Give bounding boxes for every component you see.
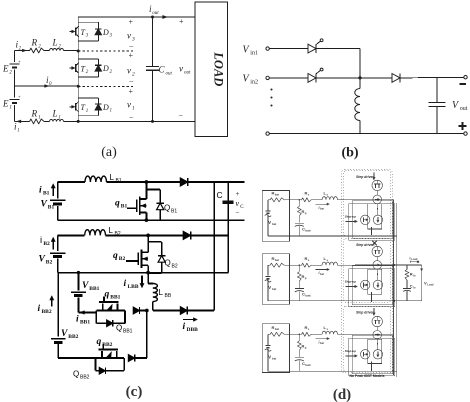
label iB2 with arrow xyxy=(52,240,54,250)
svg-text:B1: B1 xyxy=(171,209,177,215)
wire output vertical left xyxy=(213,182,215,311)
wire L2 to bus xyxy=(64,50,79,52)
node LBB bottom junction xyxy=(145,309,149,313)
capacitor output xyxy=(436,78,438,102)
source Vbat row 3 xyxy=(267,334,269,345)
modules outer dashed container xyxy=(342,170,393,373)
wire common rail xyxy=(58,272,229,274)
IGBT circle module 3 xyxy=(372,316,382,326)
body diode QB1 loop xyxy=(146,189,160,191)
svg-text:−: − xyxy=(129,42,134,51)
svg-text:LBB: LBB xyxy=(128,284,139,290)
wire top output xyxy=(78,16,195,18)
wire row 2 from box xyxy=(290,264,302,266)
svg-text:bat: bat xyxy=(275,327,279,331)
svg-text:−: − xyxy=(179,111,184,120)
subsystem solid box module 3 xyxy=(352,335,392,374)
inductor LBB xyxy=(147,273,149,284)
wire Ls to module row 3 xyxy=(338,333,344,335)
load box xyxy=(195,2,228,137)
resistor Rbat row 2 xyxy=(268,264,270,266)
inductor L2 xyxy=(50,49,64,51)
diode D1 xyxy=(95,104,102,110)
node QB2 source on rail xyxy=(146,271,150,275)
resistor Rs row 2 xyxy=(301,263,312,267)
svg-text:i: i xyxy=(39,186,42,196)
node bus-top-branch junction xyxy=(77,50,80,53)
wire circle2-pair module 1 xyxy=(376,204,379,216)
svg-text:bat: bat xyxy=(272,287,276,291)
svg-text:L: L xyxy=(52,109,58,119)
wire pair to bottom module 2 xyxy=(371,292,373,302)
svg-text:Q: Q xyxy=(164,204,170,213)
svg-text:Q: Q xyxy=(116,324,122,333)
wire load right with Vload xyxy=(421,265,423,270)
svg-text:1: 1 xyxy=(58,116,61,121)
wire circle2-pair module 2 xyxy=(376,269,379,280)
wire bottom branch i1 xyxy=(15,120,30,122)
node bus-bottom junction xyxy=(77,120,80,123)
svg-text:D: D xyxy=(102,64,109,73)
label plus output xyxy=(459,125,467,127)
wire QBB2 riser to DBB node xyxy=(146,311,148,359)
wire circle1-circle2 module 1 xyxy=(376,190,378,195)
dashed link upper xyxy=(78,50,135,52)
svg-text:1: 1 xyxy=(38,116,41,121)
wire LB1 to QB1 node xyxy=(107,181,147,183)
svg-text:Step driven: Step driven xyxy=(356,243,374,247)
diode DB2 xyxy=(148,234,183,236)
node load bottom junction xyxy=(393,300,395,302)
wire row 3 through module to bus xyxy=(343,333,393,335)
label ibat row 3 xyxy=(315,338,328,340)
svg-text:p: p xyxy=(305,345,307,349)
svg-text:Step-up: Step-up xyxy=(345,349,356,353)
capacitor Cbat row 3 xyxy=(298,350,300,357)
driver circle module 3 xyxy=(361,350,370,359)
wire Vin1 to SCR1 xyxy=(269,48,308,50)
subsystem solid box module 1 xyxy=(352,201,392,239)
thyristor SCR2 xyxy=(308,74,316,83)
svg-text:V: V xyxy=(268,354,271,359)
capacitor Cload xyxy=(406,280,408,288)
svg-text:Step-up: Step-up xyxy=(345,280,356,284)
svg-text:BB1: BB1 xyxy=(80,320,90,326)
capacitor Cbat row 2 xyxy=(298,281,300,288)
capacitor C output xyxy=(227,182,229,273)
source VBB2 xyxy=(51,338,66,340)
current source circle module 1 xyxy=(373,195,382,204)
svg-text:+: + xyxy=(18,96,21,101)
resistor Rbat row 3 xyxy=(268,333,270,335)
svg-text:batt: batt xyxy=(305,228,310,232)
switch cell T3/D3 frame xyxy=(78,21,98,23)
IGBT module 1 dashed box xyxy=(343,171,390,236)
svg-text:BB1: BB1 xyxy=(110,295,120,301)
wire Rs to Ls row 2 xyxy=(312,264,323,266)
node row 3 branch xyxy=(299,334,301,336)
diode DB1 xyxy=(146,181,180,183)
svg-text:V: V xyxy=(61,329,68,339)
wire pair to bottom module 3 xyxy=(371,361,373,371)
wire VBB1 to QBB1 xyxy=(77,297,79,312)
svg-text:−: − xyxy=(129,78,134,87)
svg-text:B1: B1 xyxy=(121,204,128,210)
svg-text:D: D xyxy=(102,28,109,37)
inductor LB1 xyxy=(85,176,107,182)
diode DBB xyxy=(153,310,181,312)
svg-text:Step driven: Step driven xyxy=(356,175,374,179)
svg-text:v: v xyxy=(127,66,131,76)
source circle module 1 xyxy=(373,215,382,224)
node bus-i0 junction xyxy=(77,85,80,88)
svg-text:q: q xyxy=(97,337,102,347)
wire DB1 to output rail xyxy=(188,181,245,183)
svg-text:Load: Load xyxy=(427,282,434,286)
transistor T3 xyxy=(70,31,74,33)
svg-text:T: T xyxy=(81,64,86,73)
svg-text:B1: B1 xyxy=(116,178,122,184)
svg-text:out: out xyxy=(166,72,173,77)
resistor Rs row 3 xyxy=(301,332,312,336)
dashed link lower xyxy=(78,85,135,87)
current source circle module 2 xyxy=(373,261,382,270)
svg-text:q: q xyxy=(113,251,118,261)
wire section2 top xyxy=(58,234,85,236)
wire bottom row 3 xyxy=(268,370,397,372)
wire bus vertical xyxy=(77,17,79,121)
resistor Rs row 1 xyxy=(301,198,312,202)
svg-text:LOAD: LOAD xyxy=(212,51,226,86)
label minus output xyxy=(460,83,467,85)
source VB2 xyxy=(50,252,66,254)
source E2 xyxy=(10,63,20,65)
svg-text:Step driven: Step driven xyxy=(356,311,374,315)
svg-text:E: E xyxy=(2,99,9,109)
svg-text:(c): (c) xyxy=(126,384,143,400)
svg-text:i: i xyxy=(38,304,41,314)
label ibat row 1 xyxy=(315,203,328,205)
driver circle module 2 xyxy=(361,280,370,289)
wire row 1 through module to bus xyxy=(343,199,393,201)
inductor Ls row 1 xyxy=(322,197,337,200)
svg-text:Q: Q xyxy=(73,370,79,379)
wire load top xyxy=(394,264,422,266)
svg-text:L: L xyxy=(109,226,114,235)
transistor T2 xyxy=(70,67,74,69)
svg-text:i: i xyxy=(76,315,79,325)
source Vbat row 1 xyxy=(267,200,269,211)
transistor QBB2 horizontal xyxy=(102,344,104,350)
wire DB2 to cap rail xyxy=(191,234,229,236)
svg-text:out: out xyxy=(460,106,468,112)
node output-bottom junction xyxy=(151,120,154,123)
diode D3 xyxy=(95,29,102,35)
svg-text:BB1: BB1 xyxy=(89,286,99,292)
svg-text:i: i xyxy=(40,235,42,246)
diode freewheel output xyxy=(392,74,400,83)
label iLBB with arrow xyxy=(141,276,143,286)
IGBT module 2 dashed box xyxy=(343,239,390,303)
svg-text:out: out xyxy=(152,11,159,16)
svg-text:L: L xyxy=(52,38,58,48)
svg-text:DBB: DBB xyxy=(187,327,199,333)
svg-text:+: + xyxy=(179,17,184,26)
wire section1 top xyxy=(58,181,85,183)
svg-text:Q: Q xyxy=(165,259,171,268)
transistor QBB1 horizontal xyxy=(103,296,105,302)
svg-text:R: R xyxy=(31,38,38,48)
node QB2 drain junction xyxy=(146,234,150,238)
battery box row 2 xyxy=(262,254,289,305)
svg-text:V: V xyxy=(41,200,48,210)
svg-text:v: v xyxy=(127,31,131,41)
wire load bottom xyxy=(394,300,422,302)
svg-text:batt: batt xyxy=(305,294,310,298)
svg-text:v: v xyxy=(236,199,240,208)
svg-text:i: i xyxy=(183,322,186,332)
label qB1 gate xyxy=(127,207,137,209)
switch cell T1/D1 frame xyxy=(78,97,98,99)
resistor Rp row 3 xyxy=(298,334,300,341)
wire Ls to module row 2 xyxy=(338,264,344,266)
resistor Rload xyxy=(406,265,408,270)
label qB2 gate xyxy=(126,260,138,262)
svg-text:1: 1 xyxy=(17,129,20,134)
resistor R1 xyxy=(29,119,45,124)
svg-text:C: C xyxy=(159,65,166,75)
svg-text:1: 1 xyxy=(86,109,89,114)
svg-text:lo: lo xyxy=(413,285,416,289)
driver circle module 1 xyxy=(361,215,370,224)
pair frame module 1 xyxy=(368,204,382,229)
node QB1 source junction xyxy=(145,218,149,222)
svg-text:bat: bat xyxy=(272,356,276,360)
svg-text:q: q xyxy=(115,199,120,209)
wire left rail E2-E1 column xyxy=(14,51,16,63)
inductor Ls row 3 xyxy=(322,331,337,334)
wire bottom row 2 xyxy=(268,300,394,302)
terminal Vin1 xyxy=(266,47,269,50)
svg-text:B2: B2 xyxy=(46,260,53,266)
pair frame module 2 xyxy=(368,269,382,294)
arrow gate module 1 xyxy=(373,172,375,178)
label iBB2 with arrow xyxy=(51,298,53,306)
svg-text:B2: B2 xyxy=(172,264,178,270)
wire circle1-circle2 module 2 xyxy=(376,257,378,261)
diode QBB2 output xyxy=(128,355,134,362)
capacitor Cbat row 1 xyxy=(298,216,300,223)
svg-text:(a): (a) xyxy=(101,145,117,160)
svg-text:Step-up: Step-up xyxy=(345,215,356,219)
body diode loop QBB1 xyxy=(95,311,97,324)
svg-text:T: T xyxy=(81,103,86,112)
battery box row 3 xyxy=(262,324,289,373)
source circle module 2 xyxy=(373,280,382,289)
svg-text:B1: B1 xyxy=(43,191,50,197)
svg-text:i: i xyxy=(124,279,127,289)
wire pair to bottom module 1 xyxy=(371,227,373,235)
svg-text:L: L xyxy=(159,288,164,297)
wire bottom row 1 xyxy=(268,235,397,237)
transistor QB2 xyxy=(147,235,149,252)
label iB1 with arrow xyxy=(52,186,54,196)
wire row2 across module to load xyxy=(343,264,394,266)
svg-text:No Peak IGBT Models: No Peak IGBT Models xyxy=(349,374,384,378)
resistor Rbat row 1 xyxy=(268,199,270,201)
wire SCR2 to diode xyxy=(316,77,392,79)
capacitor Cout xyxy=(152,17,154,66)
svg-text:v: v xyxy=(127,100,131,110)
source circle module 3 xyxy=(373,350,382,359)
subsystem solid box module 2 xyxy=(352,266,392,305)
wire row 3 from box xyxy=(290,333,302,335)
svg-text:p: p xyxy=(305,211,307,215)
svg-text:batt: batt xyxy=(305,363,310,367)
wire section1 left rail xyxy=(57,182,59,199)
svg-text:B1: B1 xyxy=(48,205,55,211)
svg-text:q: q xyxy=(105,290,110,300)
container solid right edges xyxy=(393,200,395,376)
wire top branch i2 xyxy=(15,50,30,52)
svg-text:bat: bat xyxy=(275,193,279,197)
wire VBB2 branch xyxy=(57,273,59,337)
svg-text:(b): (b) xyxy=(341,146,358,161)
inductor filter xyxy=(359,78,361,89)
current source circle module 3 xyxy=(373,331,382,340)
svg-text:out: out xyxy=(184,71,191,76)
svg-text:2: 2 xyxy=(9,70,12,76)
svg-text:C: C xyxy=(217,190,223,200)
body diode loop QBB2 xyxy=(95,358,97,371)
svg-text:in2: in2 xyxy=(250,80,258,86)
source E1 xyxy=(10,99,20,101)
svg-text:T: T xyxy=(81,28,86,37)
node row 2 branch xyxy=(299,264,301,266)
thyristor SCR1 xyxy=(308,44,316,53)
mark X module 2 xyxy=(372,241,376,245)
terminal Vin2 xyxy=(266,76,269,79)
node junction SCR outputs xyxy=(358,76,361,79)
svg-text:+: + xyxy=(129,87,134,96)
svg-text:BB2: BB2 xyxy=(42,309,52,315)
svg-text:R: R xyxy=(31,109,38,119)
svg-text:BB2: BB2 xyxy=(102,342,112,348)
source VB1 xyxy=(50,199,66,201)
svg-text:bat: bat xyxy=(272,222,276,226)
terminal output negative xyxy=(464,76,467,79)
IGBT module 3 dashed box xyxy=(343,306,390,371)
terminal bottom right xyxy=(464,132,467,135)
svg-text:−: − xyxy=(236,209,240,217)
svg-text:in1: in1 xyxy=(250,50,258,56)
wire section2 left rail xyxy=(57,235,59,251)
label ibat row 2 xyxy=(315,269,328,271)
svg-text:B2: B2 xyxy=(119,256,126,262)
wire DBB to output vertical xyxy=(187,310,214,312)
wire circle1-circle2 module 3 xyxy=(376,327,378,331)
svg-text:bat: bat xyxy=(320,207,324,211)
wire diode to output terminal xyxy=(400,76,464,79)
body diode QB2 loop xyxy=(148,241,162,243)
IGBT circle module 1 xyxy=(372,180,382,190)
resistor Rp row 2 xyxy=(298,265,300,272)
label Iload with arrow xyxy=(409,260,411,263)
wire Rs to Ls row 3 xyxy=(312,333,323,335)
wire VBB2 to QBB2 xyxy=(57,344,59,358)
svg-text:Load: Load xyxy=(411,257,418,261)
svg-text:B2: B2 xyxy=(43,241,50,247)
node load top junction xyxy=(393,264,395,266)
node output-top junction xyxy=(151,16,154,19)
inductor Ls row 2 xyxy=(322,262,337,265)
switch cell T2/D2 frame xyxy=(78,58,98,60)
svg-text:+: + xyxy=(129,18,134,27)
wire section1 bottom rail xyxy=(58,219,245,221)
svg-text:L: L xyxy=(110,173,115,182)
resistor Rp row 1 xyxy=(298,200,300,207)
IGBT circle module 2 xyxy=(372,246,382,256)
svg-text:+: + xyxy=(18,60,21,65)
transistor QB1 xyxy=(145,182,147,199)
diode QBB1 output xyxy=(133,307,139,314)
label iDBB with arrow xyxy=(183,319,195,321)
wire L1 to bus xyxy=(64,120,79,122)
svg-text:+: + xyxy=(236,190,240,198)
svg-text:bat: bat xyxy=(320,341,324,345)
pair frame module 3 xyxy=(368,339,382,363)
svg-text:+: + xyxy=(129,51,134,60)
wire R1-L1 xyxy=(45,120,50,122)
wire circle2-pair module 3 xyxy=(376,339,379,350)
svg-text:D: D xyxy=(102,103,109,112)
wire bottom output xyxy=(78,120,195,122)
svg-text:(d): (d) xyxy=(333,387,351,402)
svg-text:V: V xyxy=(268,285,271,290)
svg-text:BB2: BB2 xyxy=(80,375,90,381)
wire Vin2 to SCR2 xyxy=(269,77,308,79)
terminal bottom left xyxy=(266,132,269,135)
transistor T1 xyxy=(70,106,74,108)
wire SCR1 to corner xyxy=(316,48,360,50)
svg-text:E: E xyxy=(2,64,9,74)
wire row 1 from box xyxy=(290,199,302,201)
svg-text:V: V xyxy=(82,281,89,291)
wire Ls to module row 1 xyxy=(338,199,344,201)
svg-text:lo: lo xyxy=(413,274,416,278)
wire bottom rail xyxy=(269,133,464,135)
inductor LB2 xyxy=(85,230,106,236)
wire R2-L2 xyxy=(45,50,50,52)
source VBB1 xyxy=(71,291,86,293)
arrow gate module 3 xyxy=(373,308,375,314)
svg-text:1: 1 xyxy=(132,106,135,112)
inductor L1 xyxy=(50,119,64,121)
svg-text:V: V xyxy=(39,255,46,265)
wire i0 middle branch xyxy=(15,85,79,87)
resistor R2 xyxy=(29,48,45,53)
svg-text:1: 1 xyxy=(110,109,113,114)
wire VBB1 branch down xyxy=(77,273,79,291)
node row 1 branch xyxy=(299,199,301,201)
source Vbat row 2 xyxy=(267,265,269,276)
svg-text:BB: BB xyxy=(165,293,172,299)
wire LB2 to QB2 node xyxy=(106,234,149,236)
wire Rs to Ls row 1 xyxy=(312,199,323,201)
svg-text:BB2: BB2 xyxy=(68,334,78,340)
battery box row 1 xyxy=(262,191,289,242)
node QB1 drain junction xyxy=(145,180,149,184)
